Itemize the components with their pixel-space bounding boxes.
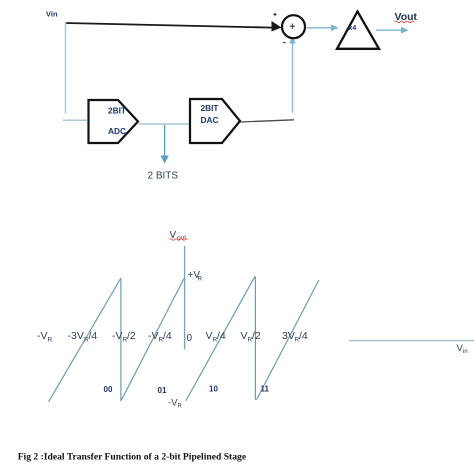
svg-text:in: in bbox=[463, 349, 468, 355]
svg-text:Vin: Vin bbox=[46, 10, 58, 19]
svg-text:0: 0 bbox=[187, 333, 193, 344]
svg-text:V: V bbox=[241, 330, 248, 342]
svg-text:2BIT: 2BIT bbox=[201, 103, 219, 113]
svg-text:/4: /4 bbox=[89, 330, 98, 342]
svg-text:10: 10 bbox=[209, 385, 218, 394]
svg-text:R: R bbox=[178, 404, 183, 410]
svg-text:-V: -V bbox=[37, 330, 48, 342]
svg-text:/2: /2 bbox=[127, 330, 136, 342]
svg-text:01: 01 bbox=[158, 386, 167, 395]
svg-text:/2: /2 bbox=[252, 330, 261, 342]
svg-text:/4: /4 bbox=[163, 330, 172, 342]
svg-text:-V: -V bbox=[112, 330, 123, 342]
svg-text:V: V bbox=[206, 330, 213, 342]
svg-text:-V: -V bbox=[148, 330, 159, 342]
svg-text:/4: /4 bbox=[299, 330, 308, 342]
svg-text:11: 11 bbox=[261, 385, 270, 394]
svg-text:Fig 2 :Ideal Transfer Function: Fig 2 :Ideal Transfer Function of a 2-bi… bbox=[18, 452, 247, 463]
svg-text:R: R bbox=[198, 275, 203, 282]
svg-text:-3V: -3V bbox=[68, 330, 84, 342]
svg-text:ADC: ADC bbox=[108, 126, 126, 136]
svg-text:2 BITS: 2 BITS bbox=[148, 171, 179, 182]
svg-text:x4: x4 bbox=[349, 25, 357, 32]
svg-text:3V: 3V bbox=[282, 330, 295, 342]
svg-text:00: 00 bbox=[104, 385, 113, 394]
svg-text:2BIT: 2BIT bbox=[108, 106, 126, 116]
svg-text:/4: /4 bbox=[217, 330, 226, 342]
svg-text:V: V bbox=[170, 230, 177, 241]
svg-text:R: R bbox=[48, 336, 53, 343]
svg-text:DAC: DAC bbox=[201, 115, 219, 125]
